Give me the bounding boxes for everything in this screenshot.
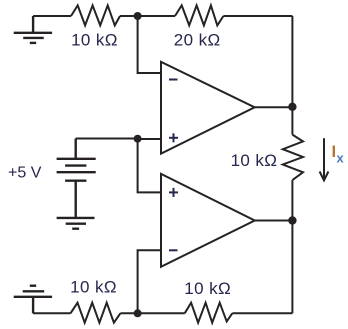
wire R4 to R5: [120, 312, 184, 314]
resistor R3 10k vertical: [283, 135, 303, 181]
wire node A down to U1 inverting input: [138, 16, 161, 73]
node B junction dot: [134, 135, 142, 143]
svg-text:10 kΩ: 10 kΩ: [231, 151, 278, 170]
svg-text:I: I: [332, 143, 337, 161]
ground G3 bottom-left inverted: [14, 286, 52, 314]
wire battery top to node B: [76, 138, 161, 141]
U2 minus sign: [169, 249, 178, 251]
wire U2 output to node D: [255, 220, 293, 222]
ground G1 top-left: [14, 16, 52, 43]
svg-text:x: x: [337, 151, 345, 166]
node C junction dot: [288, 103, 296, 111]
wire R5 to right rail: [232, 312, 292, 314]
wire top-left: [33, 15, 71, 17]
resistor R1 10k (top-left): [71, 5, 120, 25]
U2 plus sign: [169, 188, 178, 197]
svg-text:10 kΩ: 10 kΩ: [70, 278, 117, 297]
wire R2 to right rail corner: [223, 15, 292, 17]
svg-text:20 kΩ: 20 kΩ: [174, 31, 221, 50]
svg-text:+5 V: +5 V: [8, 165, 42, 182]
wire node E up to U2 inverting input: [138, 250, 161, 313]
wire node B down to U2 noninverting input: [138, 139, 161, 193]
wire right rail top segment: [291, 16, 293, 135]
resistor R4 10k (bottom-left): [71, 303, 121, 323]
resistor R5 10k (bottom-right): [185, 303, 233, 323]
svg-text:10 kΩ: 10 kΩ: [71, 31, 118, 50]
U1 minus sign: [169, 79, 178, 81]
resistor R2 20k (top): [175, 5, 223, 25]
op-amp U2: [161, 174, 255, 267]
wire right rail mid segment: [291, 180, 293, 313]
op-amp U1: [161, 62, 255, 154]
wire U1 output to node C: [255, 106, 293, 108]
node E junction dot: [134, 309, 142, 317]
node A junction dot: [134, 12, 142, 20]
wire bottom rail left of R4: [33, 312, 70, 314]
U1 plus sign: [169, 133, 178, 142]
wire R1 to R2: [120, 15, 175, 17]
current arrow Ix: [320, 138, 329, 180]
ground G2 below battery: [57, 218, 95, 229]
svg-text:10 kΩ: 10 kΩ: [184, 279, 231, 298]
battery V1: [57, 139, 96, 218]
node D junction dot: [288, 216, 296, 224]
